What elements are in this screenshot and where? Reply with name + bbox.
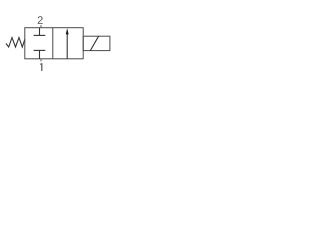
position divider: [52, 28, 54, 59]
flow path arrow (right chamber): [66, 28, 69, 59]
valve body outline: [25, 28, 83, 59]
port 2 label: [38, 16, 43, 24]
solenoid coil box: [83, 36, 110, 50]
valve V1 (2/2-way solenoid valve, spring return): [0, 0, 116, 90]
spring (return spring, left side): [6, 38, 25, 47]
port 1 label: [40, 63, 42, 71]
solenoid diagonal: [90, 36, 98, 50]
port 2 stub: [40, 25, 42, 28]
blocked port symbol (top, left chamber): [34, 28, 46, 36]
blocked port symbol (bottom, left chamber): [34, 50, 46, 58]
port 1 stub: [40, 59, 42, 62]
